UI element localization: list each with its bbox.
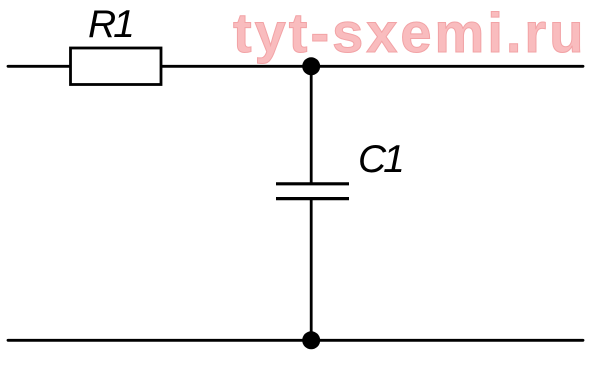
resistor R1: [71, 48, 162, 85]
label R1: [88, 5, 132, 44]
capacitor C1: [276, 184, 349, 199]
wire top rail: [8, 65, 583, 68]
watermark tyt-sxemi.ru: [233, 5, 586, 61]
node junction top: [302, 57, 320, 75]
wire bottom rail: [8, 339, 583, 342]
node junction bottom: [302, 331, 320, 349]
wire vertical upper (node to C1 top plate): [310, 66, 313, 183]
label C1: [358, 140, 402, 179]
wire vertical lower (C1 bottom plate to bottom rail): [310, 199, 313, 341]
